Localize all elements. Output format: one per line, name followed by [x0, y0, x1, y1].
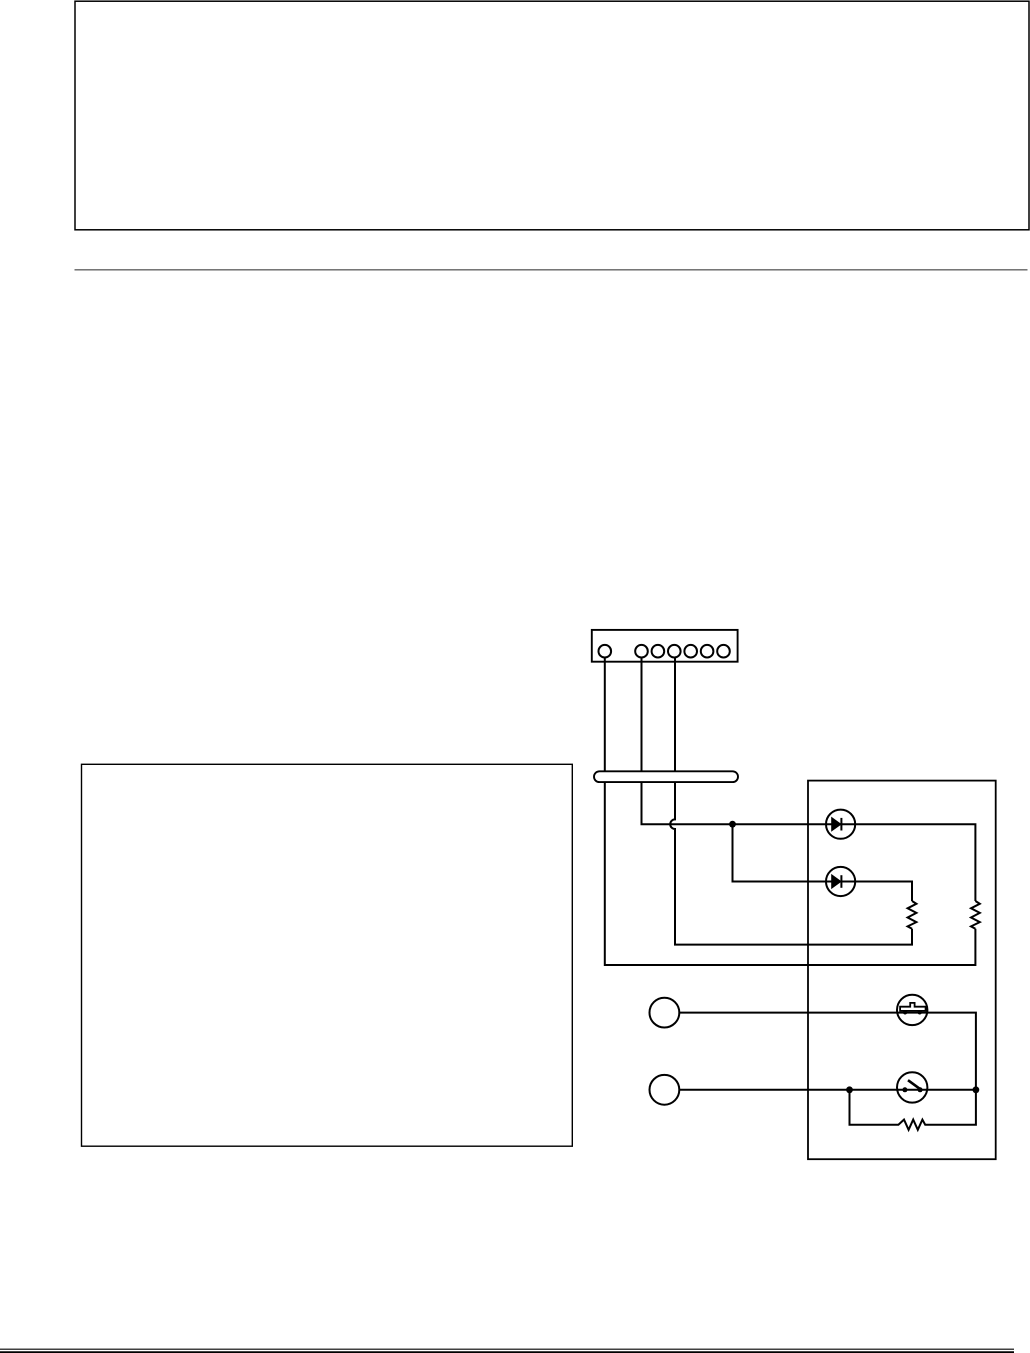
wire: J1 right through push-button, down to switch line	[679, 1013, 976, 1090]
junction node C	[973, 1086, 980, 1093]
input terminal circle J1	[650, 998, 680, 1028]
junction node B	[846, 1086, 853, 1093]
terminal block TB1	[592, 630, 738, 662]
terminal pin 7	[717, 645, 730, 658]
wire: terminal 1 down and right to R2 bottom	[605, 657, 976, 965]
wire: J2 right through switch to node C	[679, 1089, 976, 1091]
equipment enclosure (left box)	[82, 764, 573, 1146]
input terminal circle J2	[650, 1075, 680, 1105]
control unit enclosure (right box)	[808, 781, 996, 1160]
LED D1	[826, 810, 855, 839]
terminal pin 6	[701, 645, 714, 658]
wire: node A down and right through LED D2 to R1 top	[733, 824, 913, 901]
terminal pin 5	[684, 645, 697, 658]
resistor R2	[971, 901, 980, 929]
bypass resistor R3 loop	[850, 1090, 976, 1130]
wire: terminal 4 down (hop over D1 wire), right to R1 bottom	[670, 657, 912, 944]
LED D2	[826, 867, 855, 896]
ferrite bead / cable clamp	[594, 771, 738, 782]
push-button switch S1	[897, 995, 927, 1025]
resistor R1	[908, 901, 917, 929]
limit switch S2	[897, 1072, 927, 1102]
junction node A	[729, 821, 736, 828]
terminal pin 2	[635, 645, 648, 658]
terminal pin 4	[668, 645, 681, 658]
wire: terminal 2 down, right through LED D1 to R2 top	[642, 657, 976, 901]
terminal pin 1	[599, 645, 612, 658]
terminal pin 3	[652, 645, 665, 658]
footer rule lower	[0, 1351, 1014, 1353]
footer rule upper	[0, 1348, 1014, 1350]
header box	[75, 1, 1029, 230]
separator rule	[75, 269, 1028, 271]
